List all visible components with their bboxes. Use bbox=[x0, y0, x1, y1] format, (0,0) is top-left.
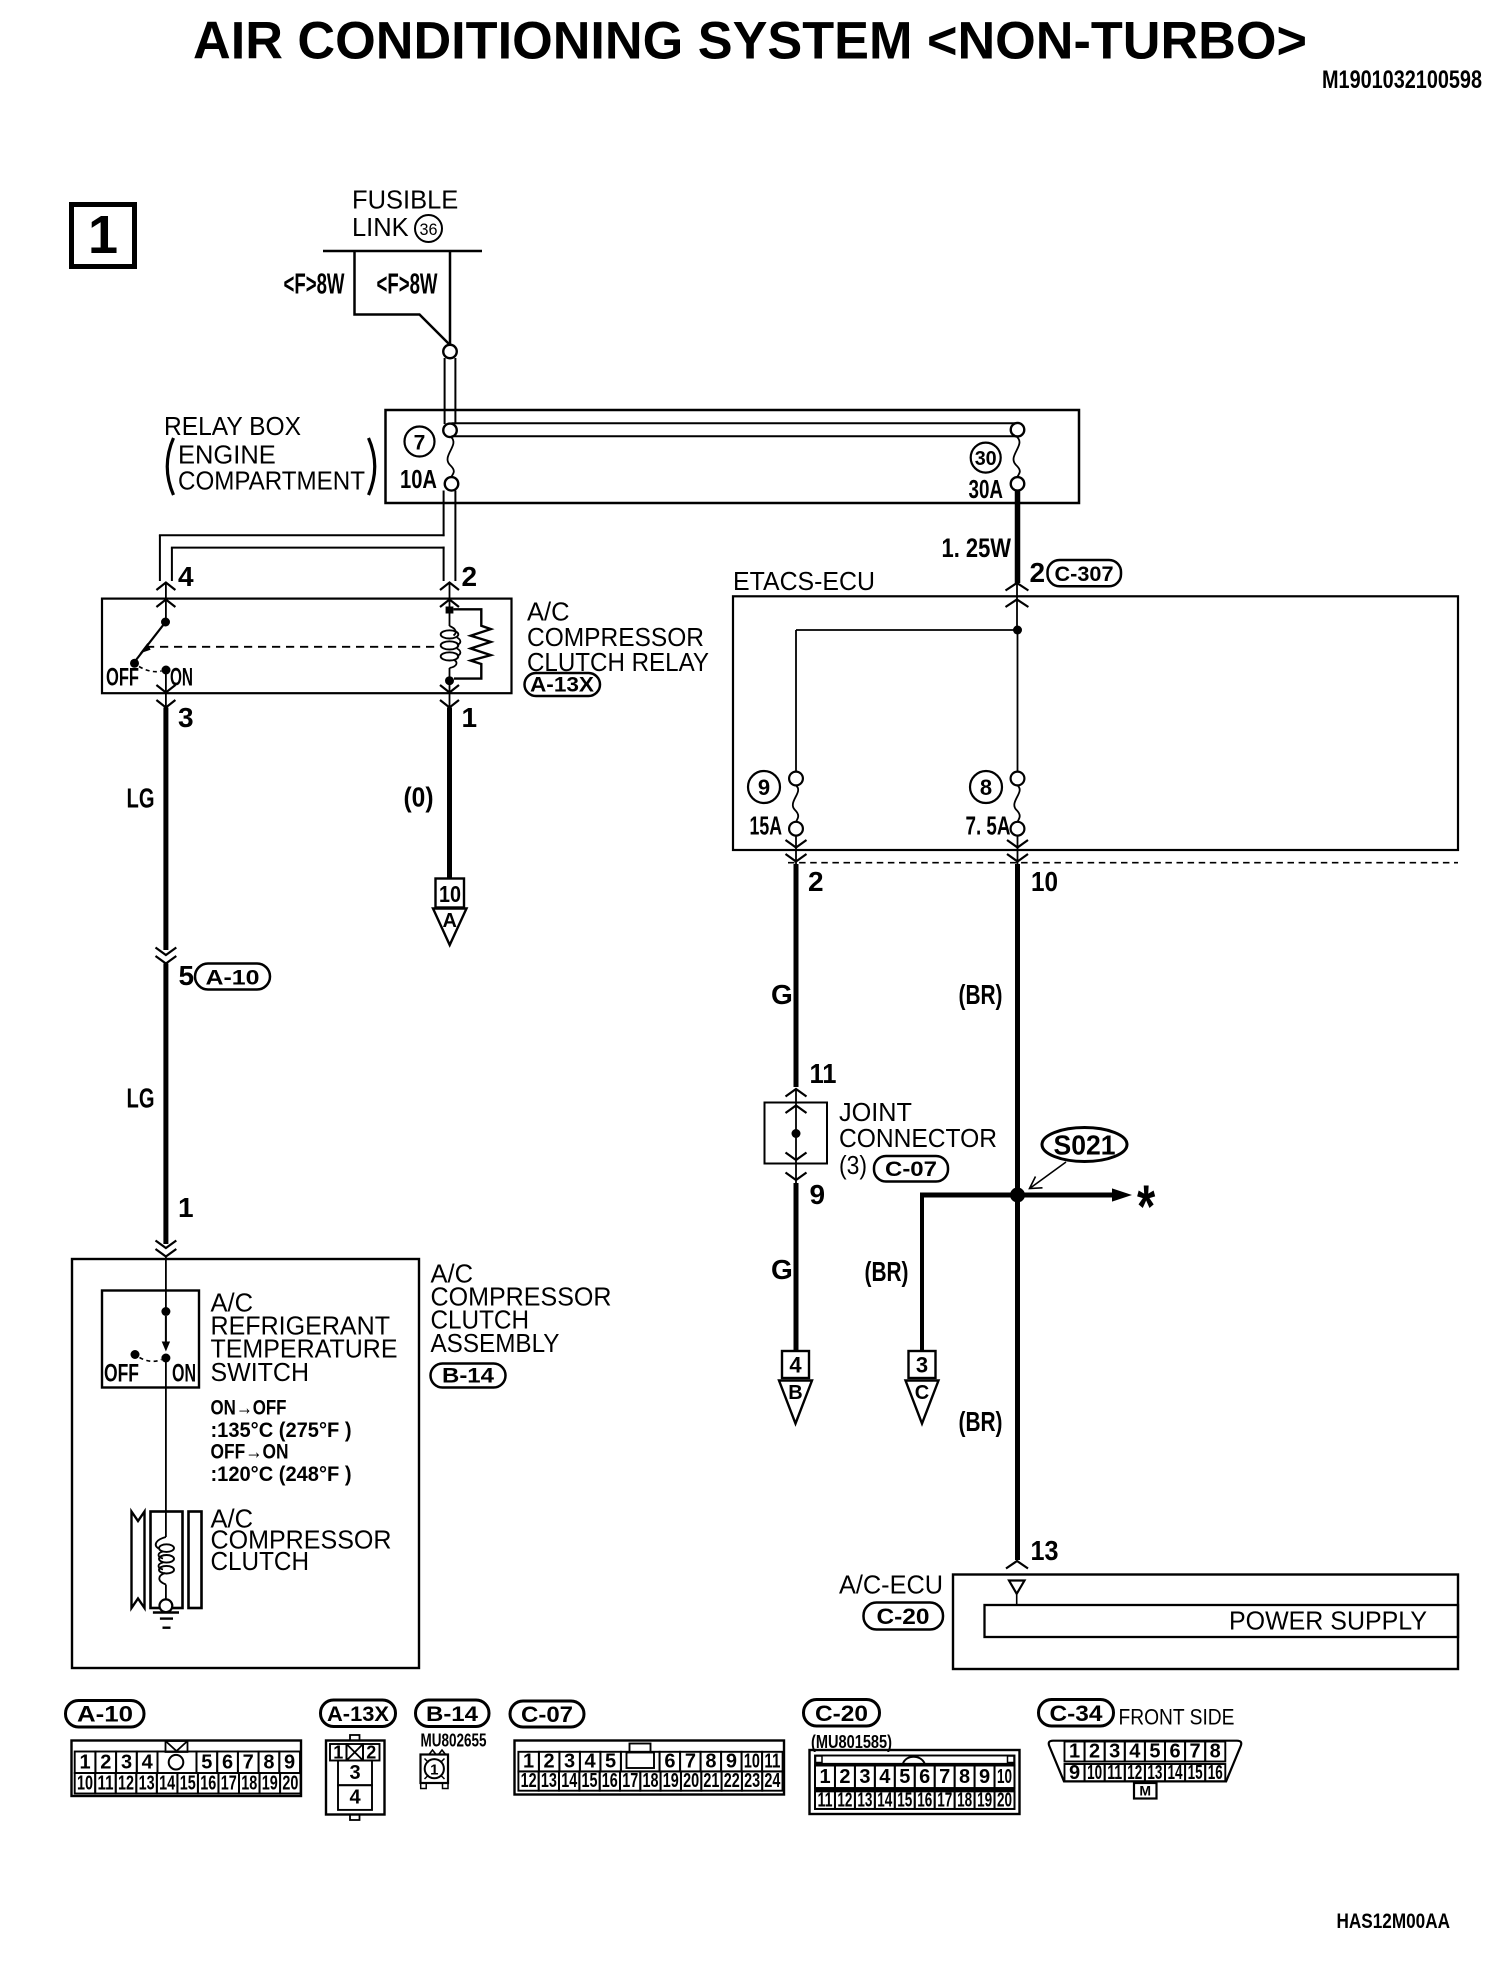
ground ref box 4 bbox=[782, 1351, 809, 1378]
svg-text:4: 4 bbox=[142, 1751, 154, 1773]
clutch field coil housing bbox=[151, 1512, 183, 1609]
svg-text:12: 12 bbox=[521, 1770, 537, 1792]
svg-text:9: 9 bbox=[758, 775, 770, 800]
svg-text:6: 6 bbox=[919, 1766, 930, 1788]
svg-text:23: 23 bbox=[744, 1770, 760, 1792]
fuse 7 id circle bbox=[405, 427, 435, 457]
svg-text:B-14: B-14 bbox=[442, 1365, 494, 1388]
joint connector arrows bottom bbox=[786, 1153, 807, 1161]
svg-text:9: 9 bbox=[284, 1751, 295, 1773]
svg-text:24: 24 bbox=[764, 1770, 781, 1792]
svg-text:1: 1 bbox=[88, 205, 118, 265]
svg-text:16: 16 bbox=[917, 1789, 932, 1811]
svg-text:3: 3 bbox=[1109, 1741, 1120, 1763]
fusible link top bar bbox=[323, 250, 482, 253]
svg-text:11: 11 bbox=[810, 1058, 837, 1089]
fusible link body wire bbox=[355, 251, 451, 345]
svg-text:2: 2 bbox=[366, 1743, 376, 1763]
wire BR to A/C-ECU bbox=[1015, 1195, 1020, 1560]
svg-text:4: 4 bbox=[789, 1353, 802, 1378]
svg-text:OFF→ON: OFF→ON bbox=[211, 1441, 289, 1464]
svg-text:30A: 30A bbox=[969, 474, 1004, 504]
svg-text:6: 6 bbox=[222, 1751, 233, 1773]
svg-text:C: C bbox=[915, 1382, 929, 1404]
connector circle at relay box bbox=[443, 424, 457, 438]
svg-text:<F>8W: <F>8W bbox=[377, 269, 438, 301]
splice node S021 bbox=[1010, 1188, 1025, 1203]
svg-text:7: 7 bbox=[939, 1766, 950, 1788]
node junction inside ETACS bbox=[1013, 626, 1022, 635]
svg-text:2: 2 bbox=[1030, 557, 1046, 588]
svg-text:ON→OFF: ON→OFF bbox=[211, 1397, 287, 1420]
svg-text:OFF: OFF bbox=[104, 1360, 139, 1388]
svg-text:(BR): (BR) bbox=[865, 1256, 909, 1287]
svg-text::135°C (275°F ): :135°C (275°F ) bbox=[211, 1419, 352, 1442]
wire to clutch coil bbox=[165, 1358, 167, 1537]
svg-text:19: 19 bbox=[977, 1789, 992, 1811]
svg-text:CLUTCH: CLUTCH bbox=[211, 1548, 310, 1576]
A/C-ECU input triangle pin bbox=[1009, 1581, 1025, 1594]
svg-text:9: 9 bbox=[810, 1179, 826, 1210]
svg-text:ASSEMBLY: ASSEMBLY bbox=[431, 1330, 560, 1358]
relay box (engine compartment) bbox=[386, 410, 1080, 503]
svg-text:OFF: OFF bbox=[106, 664, 139, 692]
svg-text:ETACS-ECU: ETACS-ECU bbox=[733, 568, 875, 596]
wire to fuse 9 bbox=[796, 629, 1018, 631]
fuse 9 element bbox=[789, 772, 803, 786]
clutch pulley bbox=[132, 1512, 145, 1609]
switch OFF contact bbox=[131, 1350, 140, 1359]
svg-text:FRONT SIDE: FRONT SIDE bbox=[1119, 1705, 1235, 1730]
svg-text:19: 19 bbox=[663, 1770, 679, 1792]
connector label B-14 bbox=[431, 1364, 506, 1388]
connector table C-34 bbox=[1039, 1700, 1114, 1727]
double-line wire to relay box bbox=[444, 358, 446, 424]
OFF-ON dashed arc bbox=[139, 667, 162, 672]
svg-text:15: 15 bbox=[582, 1770, 598, 1792]
connector circle top bbox=[443, 345, 457, 359]
svg-text:3: 3 bbox=[121, 1751, 132, 1773]
wire fuse7 down double line bbox=[443, 491, 445, 537]
fuse 9 id circle bbox=[748, 771, 780, 803]
relay switch arm bbox=[136, 624, 164, 660]
svg-text:2: 2 bbox=[839, 1766, 850, 1788]
relay resistor bbox=[454, 609, 491, 678]
svg-text:9: 9 bbox=[979, 1766, 990, 1788]
svg-text:16: 16 bbox=[1208, 1762, 1223, 1784]
svg-text:C-34: C-34 bbox=[1050, 1701, 1104, 1726]
wire to fuse 8 bbox=[1017, 630, 1019, 772]
svg-text:A/C-ECU: A/C-ECU bbox=[839, 1572, 943, 1600]
A/C-ECU pin 13 arrow bbox=[1006, 1561, 1028, 1569]
connector C-307 pin 2 arrow bbox=[1006, 583, 1029, 591]
relay ON contact bbox=[162, 666, 171, 675]
svg-text:10: 10 bbox=[1087, 1762, 1102, 1784]
in-line connector A-10 arrows bbox=[156, 948, 177, 956]
circled 36 bbox=[415, 215, 442, 242]
svg-text:10: 10 bbox=[77, 1772, 93, 1794]
svg-text:3: 3 bbox=[178, 702, 194, 733]
switch fixed contact bbox=[161, 1307, 170, 1316]
A/C-ECU box bbox=[953, 1575, 1458, 1670]
svg-text:5: 5 bbox=[1149, 1741, 1160, 1763]
fuse 7 element bbox=[448, 437, 454, 477]
svg-text:10: 10 bbox=[1031, 866, 1058, 897]
clutch ground terminal circle bbox=[160, 1599, 173, 1612]
joint connector node dot bbox=[792, 1129, 801, 1138]
svg-text:13: 13 bbox=[857, 1789, 872, 1811]
wire G to ground B bbox=[794, 1183, 799, 1351]
relay dashed link line bbox=[146, 646, 437, 648]
svg-text:21: 21 bbox=[703, 1770, 719, 1792]
splice label S021 bbox=[1042, 1128, 1127, 1162]
connector table A-13X bbox=[321, 1700, 396, 1727]
relay pin 4 arrows bbox=[156, 583, 175, 591]
svg-text:LG: LG bbox=[127, 1083, 155, 1114]
bus bar double line bbox=[452, 422, 1018, 424]
svg-text:30: 30 bbox=[975, 448, 997, 470]
svg-text:7: 7 bbox=[243, 1751, 254, 1773]
svg-text:A-10: A-10 bbox=[206, 967, 260, 990]
svg-text:5: 5 bbox=[179, 960, 195, 991]
wire pin1 to ground A bbox=[447, 708, 452, 879]
fuse 8 id circle bbox=[970, 771, 1002, 803]
ETACS pin 10 arrows bbox=[1017, 836, 1019, 864]
ground ref box 3 bbox=[909, 1351, 936, 1378]
svg-text:6: 6 bbox=[1169, 1741, 1180, 1763]
svg-text:12: 12 bbox=[837, 1789, 852, 1811]
svg-text:13: 13 bbox=[1031, 1535, 1059, 1566]
svg-text:14: 14 bbox=[159, 1772, 176, 1794]
svg-text:CONNECTOR: CONNECTOR bbox=[839, 1125, 997, 1153]
svg-text:18: 18 bbox=[241, 1772, 257, 1794]
connector label A-10 bbox=[195, 964, 270, 990]
ground bbox=[153, 1611, 179, 1613]
svg-text:MU802655: MU802655 bbox=[421, 1731, 487, 1751]
joint connector box C-07 bbox=[765, 1103, 828, 1164]
svg-text:15A: 15A bbox=[750, 811, 783, 841]
branch double line to pin 4 bbox=[159, 534, 445, 536]
wire to other page bbox=[922, 1193, 1112, 1198]
svg-text:13: 13 bbox=[139, 1772, 155, 1794]
svg-text:COMPRESSOR: COMPRESSOR bbox=[527, 624, 704, 652]
svg-text:11: 11 bbox=[98, 1772, 114, 1794]
svg-text:1: 1 bbox=[79, 1751, 90, 1773]
svg-text:2: 2 bbox=[462, 561, 478, 592]
svg-text:(3): (3) bbox=[839, 1152, 867, 1180]
A/C compressor clutch assembly box bbox=[72, 1259, 419, 1668]
power supply inner box bbox=[985, 1605, 1459, 1637]
fuse 8 element bbox=[1011, 772, 1025, 786]
svg-text:C-07: C-07 bbox=[885, 1158, 937, 1181]
svg-text:18: 18 bbox=[957, 1789, 972, 1811]
wire BR from pin 10 bbox=[1015, 864, 1020, 1192]
svg-text:1: 1 bbox=[178, 1192, 194, 1223]
svg-text:10A: 10A bbox=[400, 464, 437, 494]
svg-text:G: G bbox=[771, 1254, 793, 1285]
clutch armature plate bbox=[189, 1512, 202, 1609]
svg-text:4: 4 bbox=[1129, 1741, 1141, 1763]
switch arm with arrow bbox=[165, 1316, 167, 1343]
svg-text:12: 12 bbox=[118, 1772, 134, 1794]
svg-text:36: 36 bbox=[420, 220, 438, 239]
svg-text:8: 8 bbox=[959, 1766, 970, 1788]
fuse 30 element bbox=[1011, 423, 1025, 437]
key box 1 bbox=[72, 205, 135, 267]
svg-text:10: 10 bbox=[439, 881, 461, 907]
connector label C-307 bbox=[1048, 560, 1122, 586]
svg-text:(BR): (BR) bbox=[959, 1406, 1003, 1437]
svg-text:4: 4 bbox=[178, 561, 194, 592]
ETACS pin 2 arrows bbox=[795, 836, 797, 864]
svg-text:C-07: C-07 bbox=[521, 1702, 573, 1727]
ground triangle C bbox=[906, 1381, 939, 1424]
svg-text:G: G bbox=[771, 979, 793, 1010]
svg-text:1: 1 bbox=[430, 1762, 438, 1779]
svg-text:17: 17 bbox=[221, 1772, 237, 1794]
svg-text:11: 11 bbox=[1107, 1762, 1122, 1784]
clutch coil bbox=[156, 1537, 166, 1549]
ETACS-ECU box bbox=[733, 596, 1458, 850]
wire fuse30 to C-307 bbox=[1015, 491, 1021, 584]
svg-text:<F>8W: <F>8W bbox=[284, 269, 345, 301]
svg-text:B: B bbox=[788, 1382, 802, 1404]
svg-text:5: 5 bbox=[201, 1751, 212, 1773]
svg-text:8: 8 bbox=[263, 1751, 274, 1773]
A/C compressor clutch relay box bbox=[102, 599, 512, 694]
svg-text:3: 3 bbox=[349, 1762, 360, 1784]
compressor pin 1 arrows bbox=[156, 1241, 177, 1249]
svg-text:18: 18 bbox=[643, 1770, 659, 1792]
svg-text:14: 14 bbox=[1168, 1762, 1184, 1784]
relay pin 1 arrows bbox=[440, 685, 459, 693]
connector label C-20 bbox=[864, 1603, 944, 1630]
svg-text:2: 2 bbox=[1089, 1741, 1100, 1763]
svg-text:1: 1 bbox=[333, 1743, 343, 1763]
svg-text:LG: LG bbox=[127, 783, 155, 814]
wire LG from pin 3 bbox=[163, 708, 168, 951]
svg-text:A-13X: A-13X bbox=[530, 674, 594, 697]
connector table C-20 bbox=[804, 1700, 880, 1727]
svg-text:20: 20 bbox=[997, 1789, 1012, 1811]
wire LG to compressor bbox=[163, 964, 168, 1245]
svg-text:13: 13 bbox=[541, 1770, 557, 1792]
connector table C-07 bbox=[510, 1701, 584, 1727]
svg-text:8: 8 bbox=[980, 775, 992, 800]
svg-text:9: 9 bbox=[1069, 1762, 1080, 1784]
svg-text:15: 15 bbox=[180, 1772, 196, 1794]
ground ref box 10 bbox=[436, 879, 465, 908]
svg-text:1: 1 bbox=[462, 702, 478, 733]
svg-text:M: M bbox=[1139, 1783, 1151, 1799]
svg-text:2: 2 bbox=[808, 866, 824, 897]
svg-text:1: 1 bbox=[819, 1766, 830, 1788]
svg-text:FUSIBLE: FUSIBLE bbox=[352, 187, 458, 215]
svg-text:A-13X: A-13X bbox=[327, 1703, 389, 1726]
switch ON contact bbox=[161, 1354, 170, 1363]
svg-text:17: 17 bbox=[937, 1789, 952, 1811]
svg-text::120°C (248°F ): :120°C (248°F ) bbox=[211, 1463, 352, 1486]
relay coil bbox=[449, 613, 451, 626]
relay OFF contact bbox=[130, 659, 139, 668]
svg-text:HAS12M00AA: HAS12M00AA bbox=[1337, 1910, 1451, 1933]
svg-text:(0): (0) bbox=[404, 782, 434, 813]
fuse 30 id circle bbox=[971, 443, 1001, 473]
switch dashed arc bbox=[140, 1358, 162, 1362]
svg-text:16: 16 bbox=[200, 1772, 216, 1794]
svg-text:LINK: LINK bbox=[352, 214, 409, 242]
svg-text:(BR): (BR) bbox=[959, 979, 1003, 1010]
svg-text:17: 17 bbox=[622, 1770, 638, 1792]
svg-text:C-20: C-20 bbox=[877, 1604, 930, 1629]
svg-text:19: 19 bbox=[262, 1772, 278, 1794]
svg-text:POWER SUPPLY: POWER SUPPLY bbox=[1229, 1608, 1427, 1636]
svg-text:1. 25W: 1. 25W bbox=[942, 533, 1012, 563]
svg-text:*: * bbox=[1137, 1173, 1155, 1240]
joint connector arrows top bbox=[786, 1089, 807, 1097]
ground triangle B bbox=[779, 1381, 812, 1424]
svg-text:A: A bbox=[442, 910, 456, 932]
svg-text:16: 16 bbox=[602, 1770, 618, 1792]
svg-text:20: 20 bbox=[683, 1770, 699, 1792]
svg-text:20: 20 bbox=[282, 1772, 298, 1794]
relay coil top square node bbox=[446, 607, 454, 614]
svg-text:COMPARTMENT: COMPARTMENT bbox=[178, 468, 365, 496]
svg-text:ON: ON bbox=[172, 1360, 196, 1388]
svg-text:15: 15 bbox=[1188, 1762, 1203, 1784]
svg-text:3: 3 bbox=[916, 1353, 928, 1378]
svg-text:B-14: B-14 bbox=[426, 1703, 478, 1726]
svg-text:5: 5 bbox=[899, 1766, 910, 1788]
svg-text:S021: S021 bbox=[1054, 1130, 1116, 1161]
relay pin 3 arrows bbox=[156, 685, 175, 693]
svg-text:RELAY BOX: RELAY BOX bbox=[164, 413, 301, 441]
svg-text:10: 10 bbox=[997, 1766, 1012, 1788]
relay switch fixed contact bbox=[161, 618, 170, 627]
svg-text:3: 3 bbox=[859, 1766, 870, 1788]
svg-text:1: 1 bbox=[1069, 1741, 1080, 1763]
wire into assembly bbox=[165, 1257, 167, 1312]
svg-text:A-10: A-10 bbox=[77, 1702, 133, 1727]
svg-text:8: 8 bbox=[1210, 1741, 1221, 1763]
connector table A-10 bbox=[66, 1701, 145, 1728]
S021 pointer arrow bbox=[1031, 1162, 1066, 1188]
svg-text:13: 13 bbox=[1147, 1762, 1162, 1784]
relay coil bottom node bbox=[445, 676, 454, 685]
svg-text:22: 22 bbox=[724, 1770, 740, 1792]
ground triangle A bbox=[433, 909, 467, 946]
dashed continuation line bbox=[788, 862, 1458, 864]
svg-text:ENGINE: ENGINE bbox=[178, 442, 276, 470]
svg-text:7. 5A: 7. 5A bbox=[966, 811, 1011, 841]
connector label A-13X bbox=[525, 673, 601, 696]
connector table B-14 bbox=[416, 1700, 490, 1727]
svg-text:15: 15 bbox=[897, 1789, 912, 1811]
svg-text:11: 11 bbox=[818, 1789, 833, 1811]
svg-text:JOINT: JOINT bbox=[839, 1099, 912, 1127]
refrigerant temperature switch box bbox=[102, 1291, 199, 1388]
svg-text:AIR CONDITIONING SYSTEM <NON-T: AIR CONDITIONING SYSTEM <NON-TURBO> bbox=[193, 12, 1307, 71]
svg-text:14: 14 bbox=[877, 1789, 893, 1811]
svg-text:A/C: A/C bbox=[527, 599, 570, 627]
svg-text:SWITCH: SWITCH bbox=[211, 1359, 310, 1387]
wire G from pin 2 bbox=[794, 864, 799, 1087]
svg-text:14: 14 bbox=[561, 1770, 578, 1792]
svg-text:M1901032100598: M1901032100598 bbox=[1322, 66, 1482, 94]
svg-text:7: 7 bbox=[1190, 1741, 1201, 1763]
relay pin 2 arrows bbox=[440, 583, 459, 591]
svg-text:7: 7 bbox=[414, 432, 426, 455]
svg-text:4: 4 bbox=[349, 1787, 361, 1809]
svg-text:2: 2 bbox=[100, 1751, 111, 1773]
wire BR branch to ground C bbox=[920, 1193, 924, 1352]
svg-text:C-307: C-307 bbox=[1055, 563, 1114, 586]
svg-text:12: 12 bbox=[1127, 1762, 1142, 1784]
connector label C-07 bbox=[874, 1156, 948, 1182]
svg-text:C-20: C-20 bbox=[815, 1701, 868, 1726]
svg-text:4: 4 bbox=[879, 1766, 891, 1788]
